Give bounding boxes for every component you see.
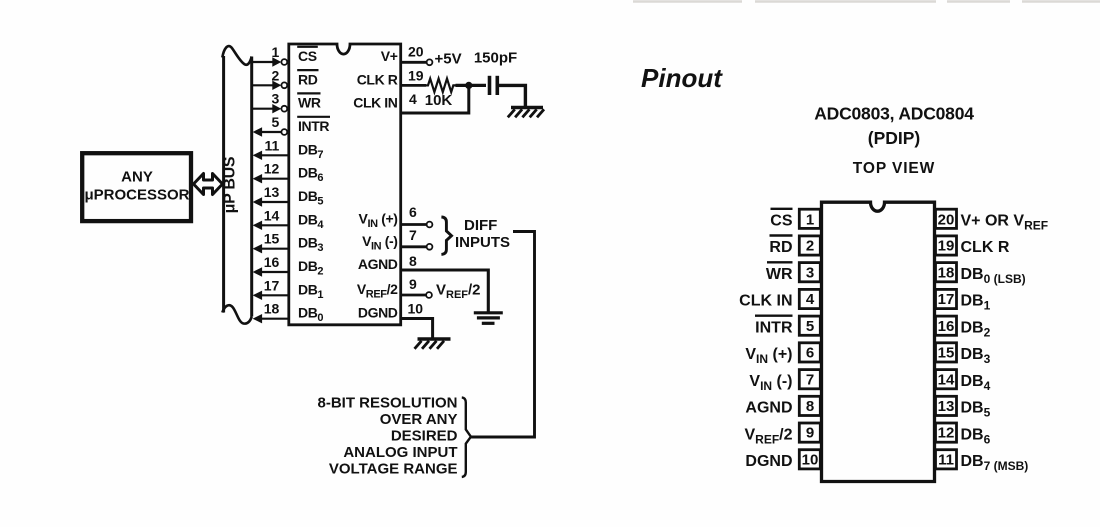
wire resistor to junction xyxy=(456,84,487,87)
pin 2 wire RD xyxy=(252,67,287,90)
DIP package body xyxy=(822,202,935,481)
svg-text:CS: CS xyxy=(770,213,793,230)
svg-text:+5V: +5V xyxy=(435,51,462,68)
svg-text:8: 8 xyxy=(806,398,814,415)
svg-text:INPUTS: INPUTS xyxy=(455,234,510,251)
svg-text:AGND: AGND xyxy=(745,400,792,417)
pin numbers right xyxy=(938,211,955,468)
svg-text:ANALOG INPUT: ANALOG INPUT xyxy=(343,444,457,461)
svg-text:5: 5 xyxy=(272,114,280,130)
pin 15 wire DB3 xyxy=(253,231,288,254)
svg-text:V+: V+ xyxy=(381,48,398,64)
earth ground (AGND) xyxy=(474,313,503,324)
pin 6 wire VIN+ xyxy=(402,204,432,228)
svg-text:4: 4 xyxy=(806,291,815,308)
pin 16 wire DB2 xyxy=(253,254,288,277)
svg-text:3: 3 xyxy=(806,264,814,281)
svg-text:6: 6 xyxy=(806,345,814,362)
pin 1 wire CS xyxy=(252,44,287,67)
svg-text:18: 18 xyxy=(264,301,280,317)
svg-text:CLK R: CLK R xyxy=(961,239,1010,256)
svg-text:DGND: DGND xyxy=(745,453,792,470)
svg-text:17: 17 xyxy=(264,277,280,293)
svg-text:OVER ANY: OVER ANY xyxy=(380,411,458,428)
svg-text:INTR: INTR xyxy=(755,319,793,336)
svg-text:CLK R: CLK R xyxy=(357,72,398,88)
svg-text:15: 15 xyxy=(264,231,280,247)
svg-text:13: 13 xyxy=(264,184,280,200)
svg-text:12: 12 xyxy=(938,425,955,442)
svg-text:9: 9 xyxy=(806,425,814,442)
svg-text:VOLTAGE RANGE: VOLTAGE RANGE xyxy=(329,461,458,478)
svg-text:3: 3 xyxy=(272,91,280,107)
svg-text:16: 16 xyxy=(938,318,955,335)
pin 7 wire VIN- xyxy=(402,227,432,250)
svg-text:CLK IN: CLK IN xyxy=(739,293,792,310)
svg-text:DIFF: DIFF xyxy=(464,217,497,234)
svg-text:1: 1 xyxy=(806,211,814,228)
svg-text:10: 10 xyxy=(408,300,424,316)
svg-text:CLK IN: CLK IN xyxy=(353,95,398,111)
svg-text:18: 18 xyxy=(938,264,955,281)
uP BUS ribbon xyxy=(222,46,251,324)
svg-text:7: 7 xyxy=(806,371,814,388)
svg-text:17: 17 xyxy=(938,291,955,308)
pin 17 wire DB1 xyxy=(253,277,288,300)
pin boxes right (20-11) xyxy=(936,209,957,469)
pin 8 wire AGND xyxy=(402,253,488,312)
svg-text:10: 10 xyxy=(802,451,819,468)
svg-text:8: 8 xyxy=(409,253,417,269)
svg-text:13: 13 xyxy=(938,398,955,415)
pin 14 wire DB4 xyxy=(253,207,288,230)
wire cap to ground xyxy=(499,85,526,106)
svg-text:19: 19 xyxy=(408,68,424,84)
svg-text:RD: RD xyxy=(298,71,318,87)
svg-text:20: 20 xyxy=(938,211,955,228)
pin numbers left xyxy=(802,211,819,468)
svg-text:2: 2 xyxy=(806,238,814,255)
svg-text:μP BUS: μP BUS xyxy=(221,156,238,213)
svg-text:Pinout: Pinout xyxy=(641,63,723,93)
svg-text:14: 14 xyxy=(938,371,955,388)
svg-text:2: 2 xyxy=(272,67,280,83)
wire from DIFF INPUTS to range brace xyxy=(471,232,535,438)
svg-text:RD: RD xyxy=(769,239,792,256)
pin 10 wire DGND xyxy=(402,300,433,337)
svg-text:5: 5 xyxy=(806,318,814,335)
svg-text:ANY: ANY xyxy=(121,169,153,186)
svg-text:20: 20 xyxy=(408,44,424,60)
pin 12 wire DB6 xyxy=(253,161,288,184)
resistor R1 10K xyxy=(426,79,456,93)
bidirectional bus arrow xyxy=(194,174,223,195)
chassis ground (DGND) xyxy=(415,339,451,349)
svg-text:10K: 10K xyxy=(425,92,453,109)
svg-text:14: 14 xyxy=(264,207,280,223)
svg-text:12: 12 xyxy=(264,161,280,177)
chassis ground (top right) xyxy=(508,108,544,118)
chip left pin labels xyxy=(297,47,330,324)
pin 9 wire VREF/2 xyxy=(402,276,481,301)
svg-text:INTR: INTR xyxy=(298,118,329,134)
chip right pin labels xyxy=(353,48,398,321)
svg-text:9: 9 xyxy=(409,276,417,292)
svg-text:μPROCESSOR: μPROCESSOR xyxy=(84,187,189,204)
svg-text:8-BIT RESOLUTION: 8-BIT RESOLUTION xyxy=(317,395,457,412)
capacitor C1 150pF xyxy=(474,50,517,96)
cropped text artifact at top edge xyxy=(633,0,1100,3)
svg-text:ADC0803, ADC0804: ADC0803, ADC0804 xyxy=(814,104,974,124)
pin 11 wire DB7 xyxy=(253,137,288,160)
microprocessor box (ANY uPROCESSOR) xyxy=(82,153,191,221)
range brace xyxy=(462,397,471,477)
svg-text:DESIRED: DESIRED xyxy=(391,428,458,445)
pin boxes left (1-10) xyxy=(799,209,820,469)
pin 3 wire WR xyxy=(252,91,287,114)
svg-text:DGND: DGND xyxy=(358,305,398,321)
pinout left labels xyxy=(739,209,793,470)
svg-text:WR: WR xyxy=(766,266,793,283)
ADC chip U1 body xyxy=(289,44,401,325)
junction node xyxy=(465,82,472,89)
8-bit resolution note text xyxy=(317,395,457,478)
svg-text:VIN (+): VIN (+) xyxy=(745,346,792,366)
pinout right labels xyxy=(961,213,1049,474)
svg-text:7: 7 xyxy=(409,227,417,243)
svg-text:11: 11 xyxy=(264,137,279,153)
svg-text:15: 15 xyxy=(938,345,955,362)
svg-text:TOP VIEW: TOP VIEW xyxy=(853,160,935,177)
svg-text:150pF: 150pF xyxy=(474,50,517,67)
svg-text:(PDIP): (PDIP) xyxy=(868,128,921,148)
pin 20 wire V+ xyxy=(402,44,462,68)
svg-text:16: 16 xyxy=(264,254,280,270)
svg-text:WR: WR xyxy=(298,95,321,111)
svg-text:1: 1 xyxy=(272,44,280,60)
svg-text:CS: CS xyxy=(298,48,317,64)
svg-text:4: 4 xyxy=(409,91,417,107)
svg-text:19: 19 xyxy=(938,238,955,255)
svg-text:11: 11 xyxy=(938,451,954,468)
pin 18 wire DB0 xyxy=(253,301,288,324)
DIFF INPUTS brace xyxy=(441,217,451,254)
svg-text:6: 6 xyxy=(409,204,417,220)
svg-text:AGND: AGND xyxy=(358,256,398,272)
pin 5 wire INTR xyxy=(253,114,288,137)
pin 13 wire DB5 xyxy=(253,184,288,207)
